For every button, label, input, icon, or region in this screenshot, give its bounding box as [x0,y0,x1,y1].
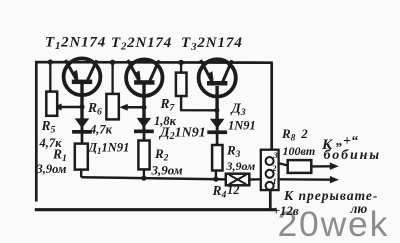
node: mid-rail junction at R3 [213,177,218,182]
svg-text:1N91: 1N91 [228,119,256,133]
node: junction T2 base / wiper [141,105,146,110]
resistor R7 body [176,73,187,96]
svg-text:1: 1 [272,176,276,186]
wire: D1 to R1 [81,133,84,144]
svg-text:Д1​1N91: Д1​1N91 [88,141,130,157]
resistor R4 body with cross [226,174,250,186]
wire: R5 top lead [49,62,51,92]
node: junction T3 base / R7 [214,108,219,113]
node: junction T1 base / wiper [79,104,84,109]
svg-text:4,7к: 4,7к [89,123,113,137]
svg-text:12: 12 [227,183,240,197]
diode D3 [207,119,227,134]
resistor R3 body [212,145,222,171]
wire: R7 top lead [180,63,182,74]
svg-text:Т1​2N174: Т1​2N174 [45,34,106,52]
node: rail junction to R5 [48,59,53,64]
wire: R4 to terminal block [249,178,262,181]
wire: R6 top lead [111,62,113,94]
terminal block [261,150,279,190]
svg-text:„+“: „+“ [336,134,358,149]
svg-text:2: 2 [271,163,277,173]
svg-text:Т2​2N174: Т2​2N174 [111,35,172,53]
svg-text:R8​ 2: R8​ 2 [281,126,308,144]
potentiometer R6 body [106,94,118,120]
diode D1 [72,118,92,133]
potentiometer R5 body [46,92,57,116]
wire: R3 bottom lead [215,170,217,179]
wire: R6 wiper arrow to T2 base [126,106,144,109]
wire: mid rail from R1 to R4 [81,177,226,179]
wire: terminal 1 to bottom rail [269,189,272,210]
wire: T1 base lead down [80,83,83,121]
wire: top supply rail [35,61,273,64]
diode D2 [134,118,154,133]
node: rail junction to R6 [110,60,115,65]
svg-text:Д2​1N91: Д2​1N91 [158,126,206,143]
wire: right drop from rail to terminal block [270,63,273,151]
transistor T3 [199,59,236,96]
wire: R5 wiper arrow to T1 base [61,106,83,109]
svg-text:лю: лю [350,201,368,216]
wire: R8 output arrow to coil + [311,165,330,167]
svg-text:бобины: бобины [324,148,381,163]
wire: T2 base lead down [142,84,145,119]
svg-text:3,9ом: 3,9ом [151,163,183,178]
wire: R7 bottom lead to T3 base [181,96,217,111]
wire: R2 bottom lead [143,169,145,178]
wire: left vertical rail [35,61,38,202]
terminal 2 [266,170,274,178]
terminal 1 [266,182,274,190]
wire: D2 to R2 [143,132,146,141]
svg-text:3,9ом: 3,9ом [226,159,256,173]
resistor R2 body [138,141,149,170]
svg-text:+12в: +12в [273,203,299,218]
terminal 3 [266,157,274,165]
node: mid-rail junction at R2 [141,176,146,181]
wire: bottom rail (+12V bus) [35,208,277,211]
wire: R1 bottom lead [80,169,82,177]
svg-text:3,9ом: 3,9ом [36,162,67,176]
wire: terminal 3 to R8 [273,162,288,166]
wire: T3 base lead down [215,86,218,120]
svg-text:100вт: 100вт [283,144,316,158]
transistor T2 [126,59,162,95]
svg-text:Т3​2N174: Т3​2N174 [181,35,243,53]
node: rail junction to R7 [178,60,183,65]
transistor T1 [64,58,101,95]
wire: D3 to R3 [216,133,219,145]
wire: terminal 2 arrow to breaker [279,178,331,181]
resistor R8 body [288,160,312,173]
svg-text:3: 3 [273,150,279,160]
resistor R1 body [75,144,88,170]
